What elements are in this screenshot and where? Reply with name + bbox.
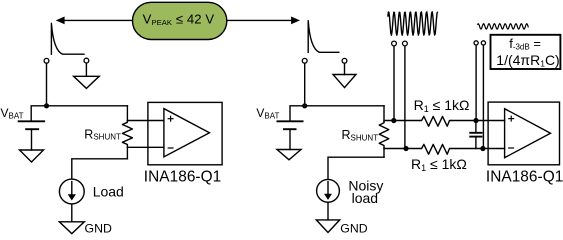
svg-text:INA186-Q1: INA186-Q1 (144, 168, 221, 185)
svg-text:Load: Load (93, 184, 124, 200)
svg-text:VBAT: VBAT (256, 106, 279, 121)
svg-text:RSHUNT: RSHUNT (84, 128, 121, 142)
svg-text:1/(4πR1C): 1/(4πR1C) (496, 52, 559, 69)
svg-text:GND: GND (340, 222, 367, 236)
svg-text:R1 ≤ 1kΩ: R1 ≤ 1kΩ (414, 97, 470, 114)
svg-text:load: load (352, 190, 378, 206)
svg-text:VBAT: VBAT (1, 106, 24, 121)
svg-text:INA186-Q1: INA186-Q1 (486, 168, 563, 185)
svg-text:RSHUNT: RSHUNT (342, 128, 379, 142)
svg-text:GND: GND (85, 222, 112, 236)
svg-text:R1 ≤ 1kΩ: R1 ≤ 1kΩ (411, 156, 467, 173)
